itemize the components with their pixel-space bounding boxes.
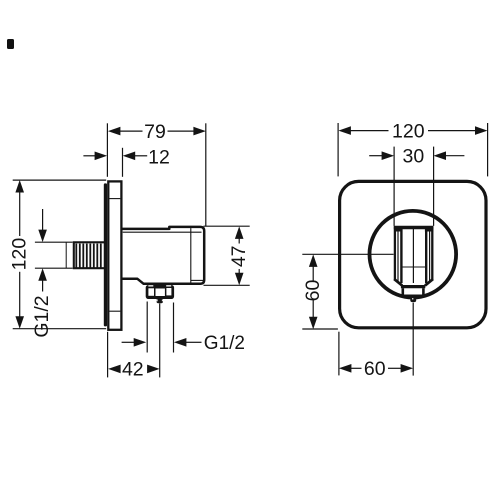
svg-text:120: 120 [392, 120, 425, 142]
square escutcheon plate [340, 181, 486, 327]
bottom nub [410, 298, 416, 303]
svg-text:12: 12 [148, 146, 170, 168]
circle opening [370, 211, 457, 298]
dimension 47 [204, 226, 250, 285]
svg-text:30: 30 [403, 146, 425, 168]
svg-text:60: 60 [302, 280, 324, 302]
holder body outline [122, 227, 205, 284]
holder foot [394, 279, 433, 296]
pipe end edge line [65, 242, 67, 268]
stray mark top-left [7, 39, 14, 49]
svg-text:42: 42 [122, 359, 144, 381]
svg-text:120: 120 [8, 238, 30, 271]
dimension 60 horizontal [339, 332, 402, 376]
dimension 12 [83, 148, 147, 177]
outlet tip [157, 299, 164, 303]
threaded inlet pipe [66, 242, 105, 268]
svg-text:60: 60 [364, 358, 386, 380]
dimension 30 [369, 147, 464, 226]
body inner edge lines [123, 228, 203, 283]
dimension 60 vertical [302, 254, 393, 329]
svg-text:G1/2: G1/2 [204, 333, 245, 354]
wall plate rear lip [104, 183, 107, 326]
svg-text:79: 79 [144, 121, 166, 143]
svg-text:47: 47 [228, 245, 250, 267]
dimension 120 front [338, 123, 488, 176]
hose connection nut [146, 285, 174, 299]
dimension 120 [13, 180, 107, 329]
dimension 79 [107, 123, 205, 226]
center axis line [412, 303, 414, 376]
shower holder front [394, 227, 434, 283]
dimension G1/2 inlet [35, 209, 73, 292]
svg-text:G1/2: G1/2 [31, 295, 53, 337]
dimension 42 [108, 303, 160, 377]
wall plate side profile [108, 181, 121, 329]
holder top corner blocks [394, 229, 402, 232]
dimension G1/2 outlet [122, 302, 202, 353]
